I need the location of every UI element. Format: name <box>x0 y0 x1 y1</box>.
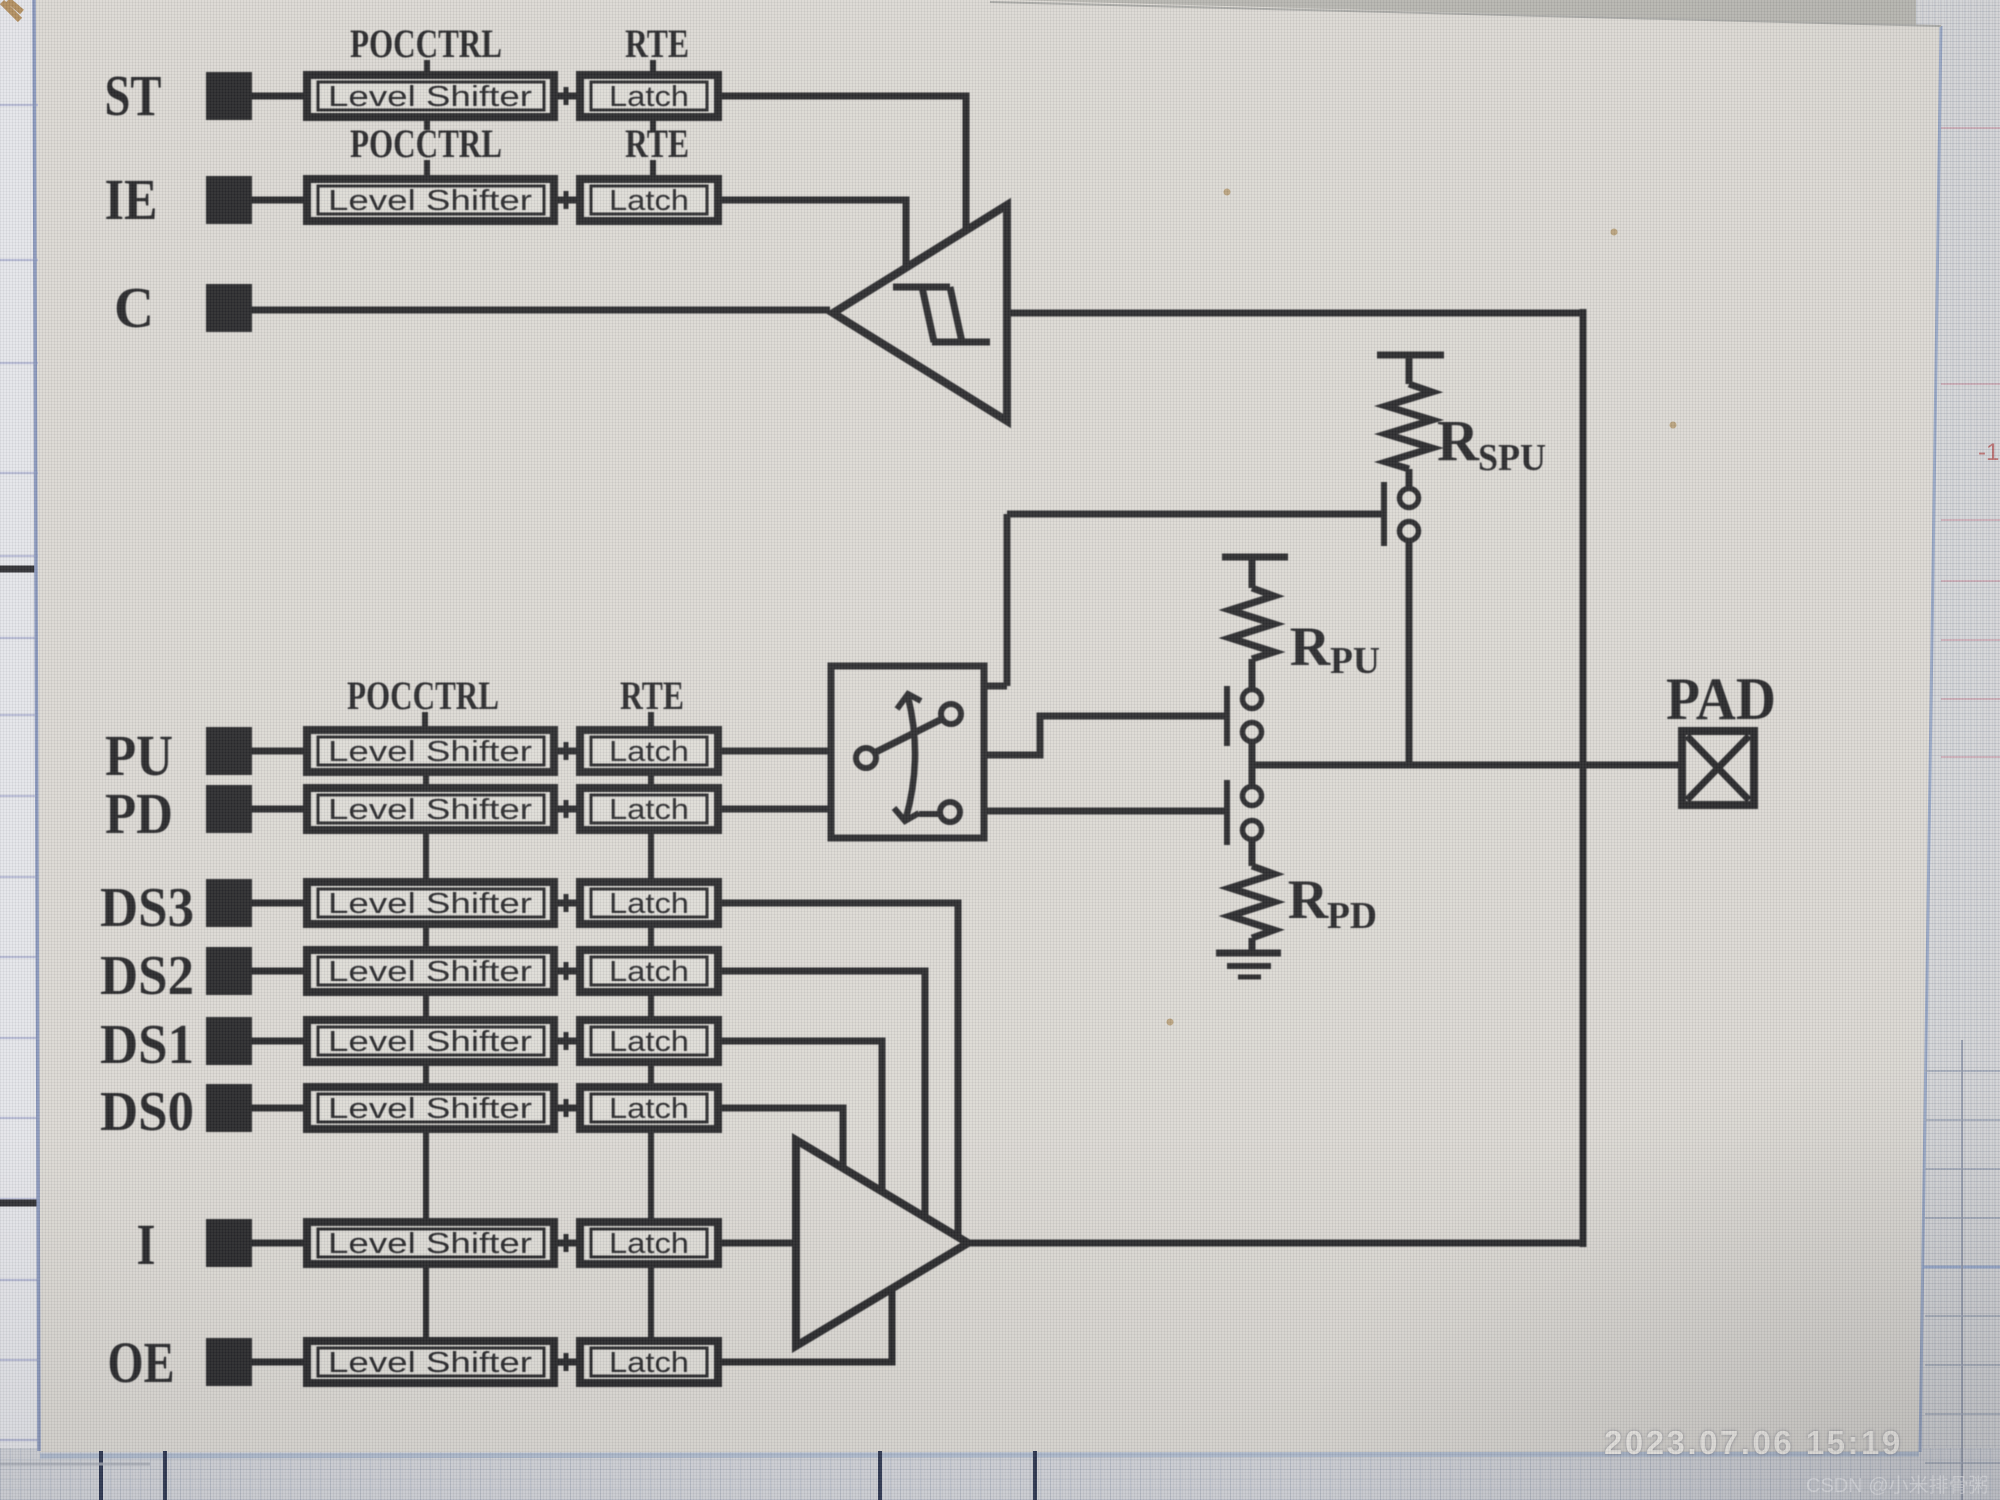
svg-text:ST: ST <box>105 63 162 128</box>
svg-text:Latch: Latch <box>609 1347 689 1379</box>
svg-text:Level Shifter: Level Shifter <box>328 956 532 988</box>
svg-text:R: R <box>1290 616 1331 678</box>
svg-text:POCCTRL: POCCTRL <box>347 673 499 718</box>
svg-text:Level Shifter: Level Shifter <box>328 736 532 768</box>
svg-text:Latch: Latch <box>609 185 689 217</box>
svg-text:Level Shifter: Level Shifter <box>328 794 532 826</box>
svg-text:R: R <box>1437 408 1480 473</box>
svg-text:IE: IE <box>105 167 158 232</box>
svg-text:PU: PU <box>105 723 173 788</box>
svg-text:DS1: DS1 <box>100 1014 194 1076</box>
svg-text:Level Shifter: Level Shifter <box>328 1026 532 1058</box>
svg-text:DS3: DS3 <box>100 877 194 939</box>
svg-text:RTE: RTE <box>625 21 689 66</box>
svg-text:Level Shifter: Level Shifter <box>328 185 532 217</box>
svg-text:Latch: Latch <box>609 1228 689 1260</box>
svg-text:PU: PU <box>1330 640 1380 682</box>
svg-text:SPU: SPU <box>1478 437 1546 479</box>
svg-text:PD: PD <box>105 781 173 846</box>
svg-text:I: I <box>137 1212 156 1277</box>
svg-text:PAD: PAD <box>1666 666 1776 732</box>
svg-text:R: R <box>1288 869 1329 931</box>
svg-text:OE: OE <box>108 1330 175 1395</box>
svg-text:Latch: Latch <box>609 1026 689 1058</box>
svg-text:Latch: Latch <box>609 1093 689 1125</box>
svg-text:Latch: Latch <box>609 736 689 768</box>
svg-text:Latch: Latch <box>609 956 689 988</box>
svg-text:Level Shifter: Level Shifter <box>328 888 532 920</box>
svg-text:Latch: Latch <box>609 794 689 826</box>
svg-text:RTE: RTE <box>620 673 684 718</box>
svg-text:Latch: Latch <box>609 81 689 113</box>
svg-text:DS0: DS0 <box>100 1081 194 1143</box>
svg-text:Level Shifter: Level Shifter <box>328 1093 532 1125</box>
svg-text:Level Shifter: Level Shifter <box>328 1347 532 1379</box>
svg-text:DS2: DS2 <box>100 945 194 1007</box>
svg-text:Latch: Latch <box>609 888 689 920</box>
svg-text:PD: PD <box>1327 895 1377 937</box>
svg-text:Level Shifter: Level Shifter <box>328 1228 532 1260</box>
svg-text:RTE: RTE <box>625 121 689 166</box>
svg-text:Level Shifter: Level Shifter <box>328 81 532 113</box>
svg-text:C: C <box>114 275 154 340</box>
svg-text:POCCTRL: POCCTRL <box>350 21 502 66</box>
